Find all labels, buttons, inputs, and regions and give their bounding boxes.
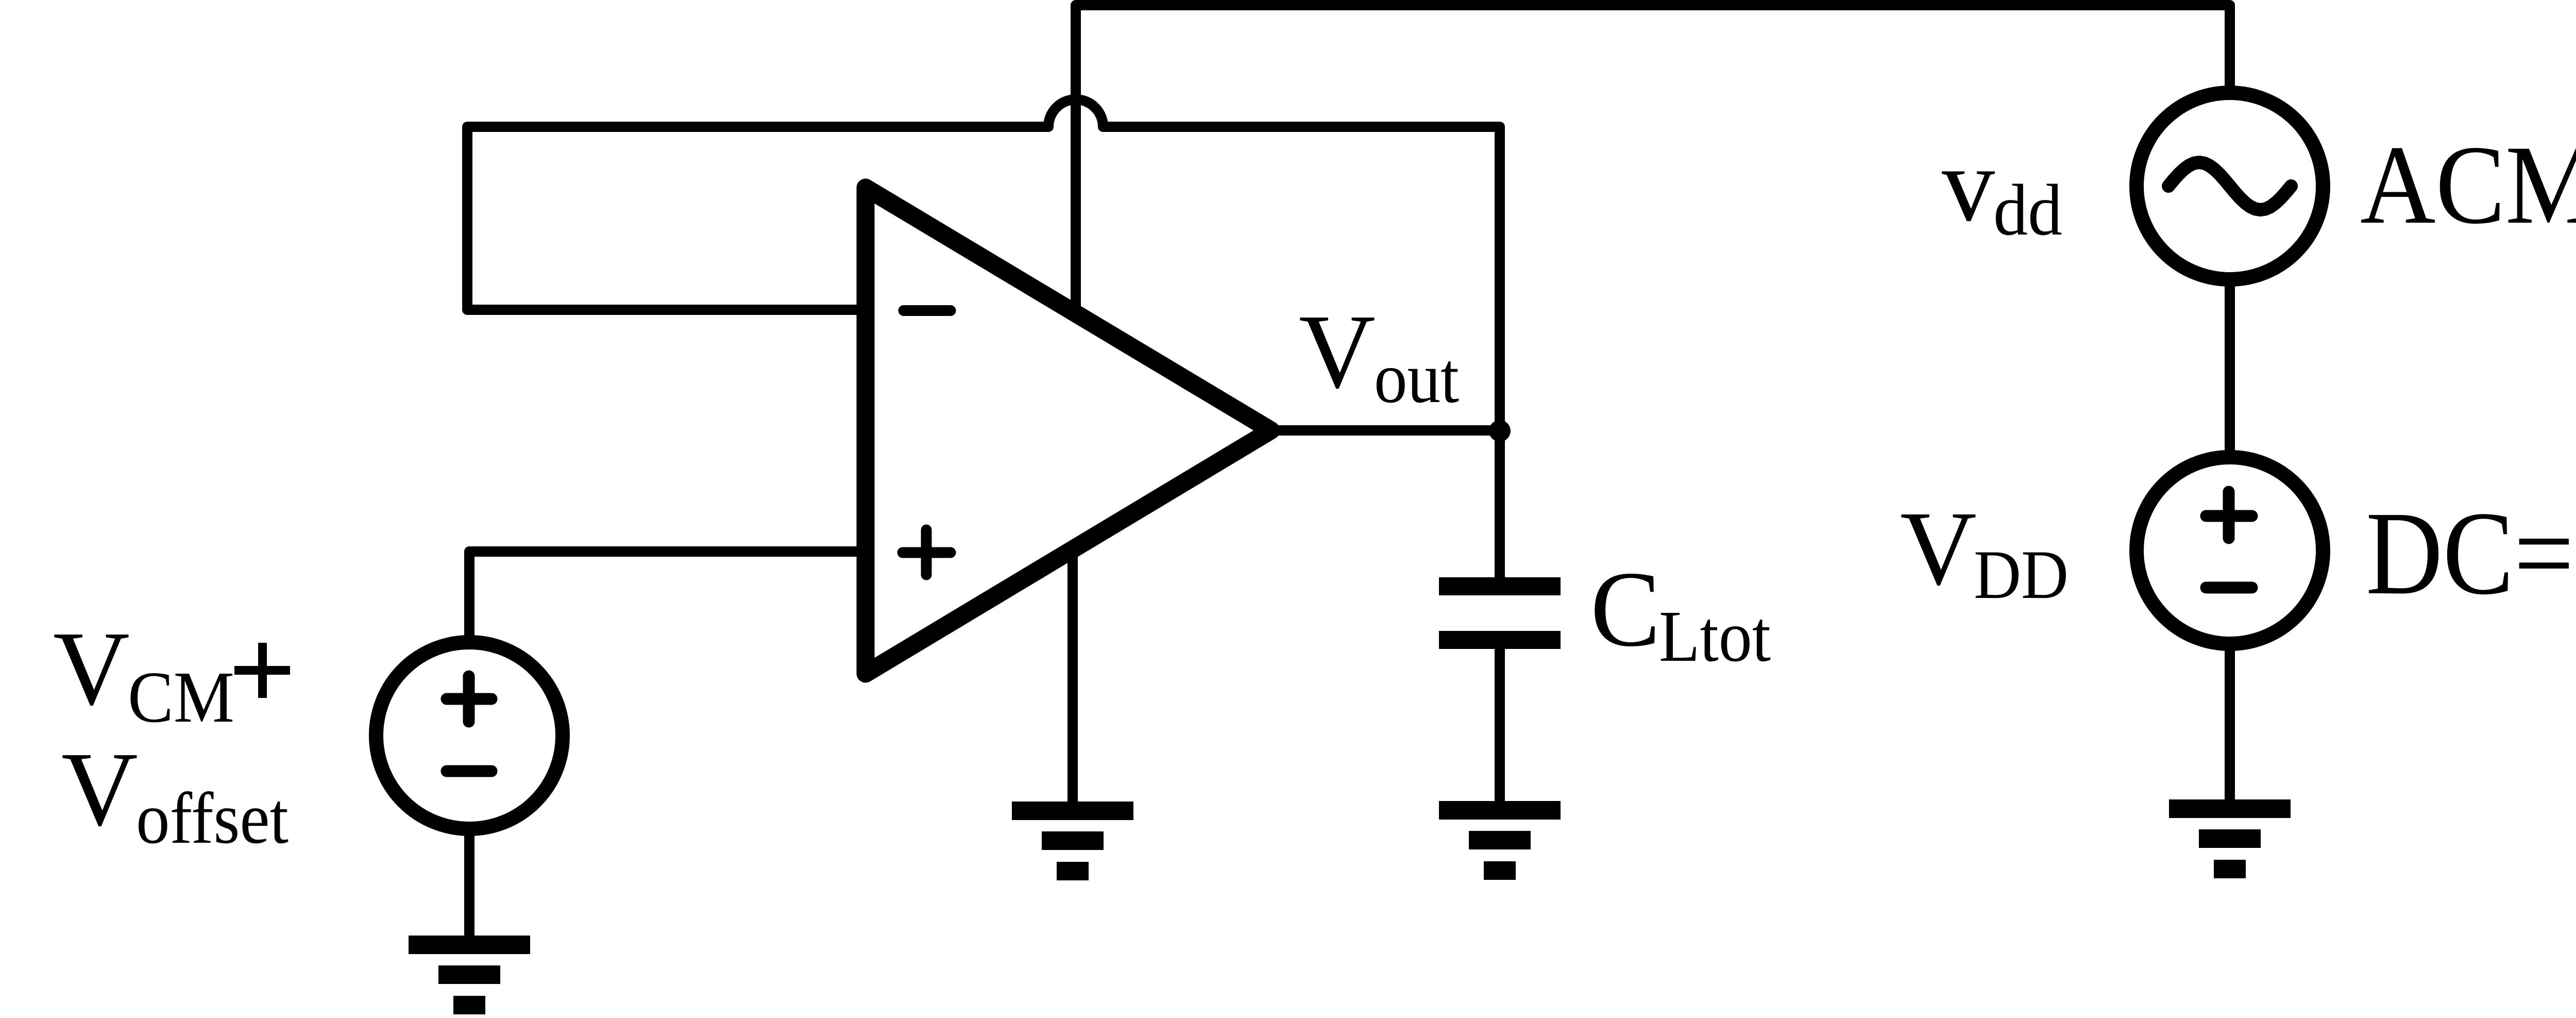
wire: VDD source to ground — [2225, 639, 2235, 800]
wire: positive supply rail from op-amp top pin to vdd source — [1076, 5, 2230, 315]
ground (op-amp negative supply) — [1012, 802, 1133, 880]
ac source vdd — [2137, 93, 2323, 279]
capacitor CLtot — [1439, 577, 1561, 649]
ground (VCM source) — [409, 936, 530, 1014]
wire: non-inverting input from VCM source to op-amp — [469, 552, 863, 647]
svg-text:V: V — [1299, 292, 1376, 410]
svg-text:DC=1.8V: DC=1.8V — [2366, 487, 2576, 620]
svg-text:CM: CM — [128, 656, 234, 738]
svg-text:dd: dd — [1993, 169, 2062, 251]
voltage source VCM+Voffset — [376, 642, 563, 829]
svg-text:DD: DD — [1974, 537, 2069, 613]
svg-text:Ltot: Ltot — [1659, 595, 1771, 677]
wire: vdd source to VDD source — [2225, 276, 2235, 461]
svg-text:ACM=1: ACM=1 — [2360, 123, 2576, 247]
node Vout junction — [1489, 420, 1511, 442]
svg-text:V: V — [53, 609, 130, 727]
ground (VDD source) — [2169, 799, 2291, 878]
wire: feedback from output node to inverting input (with hop over supply wire) — [467, 99, 1500, 430]
dc source VDD — [2137, 457, 2323, 644]
svg-text:V: V — [61, 730, 138, 848]
svg-text:C: C — [1590, 549, 1660, 669]
wire: capacitor to ground — [1495, 649, 1505, 803]
op-amp U1 — [866, 188, 1271, 674]
wire: op-amp negative supply pin — [1067, 547, 1078, 803]
svg-text:out: out — [1374, 338, 1459, 418]
ground (load capacitor) — [1439, 801, 1561, 880]
wire: VCM source to ground — [464, 825, 474, 936]
wire: op-amp output — [1271, 425, 1500, 436]
svg-text:offset: offset — [136, 777, 289, 859]
svg-text:V: V — [1900, 489, 1977, 607]
wire: output node to load capacitor — [1495, 430, 1505, 578]
svg-text:v: v — [1942, 125, 1995, 243]
